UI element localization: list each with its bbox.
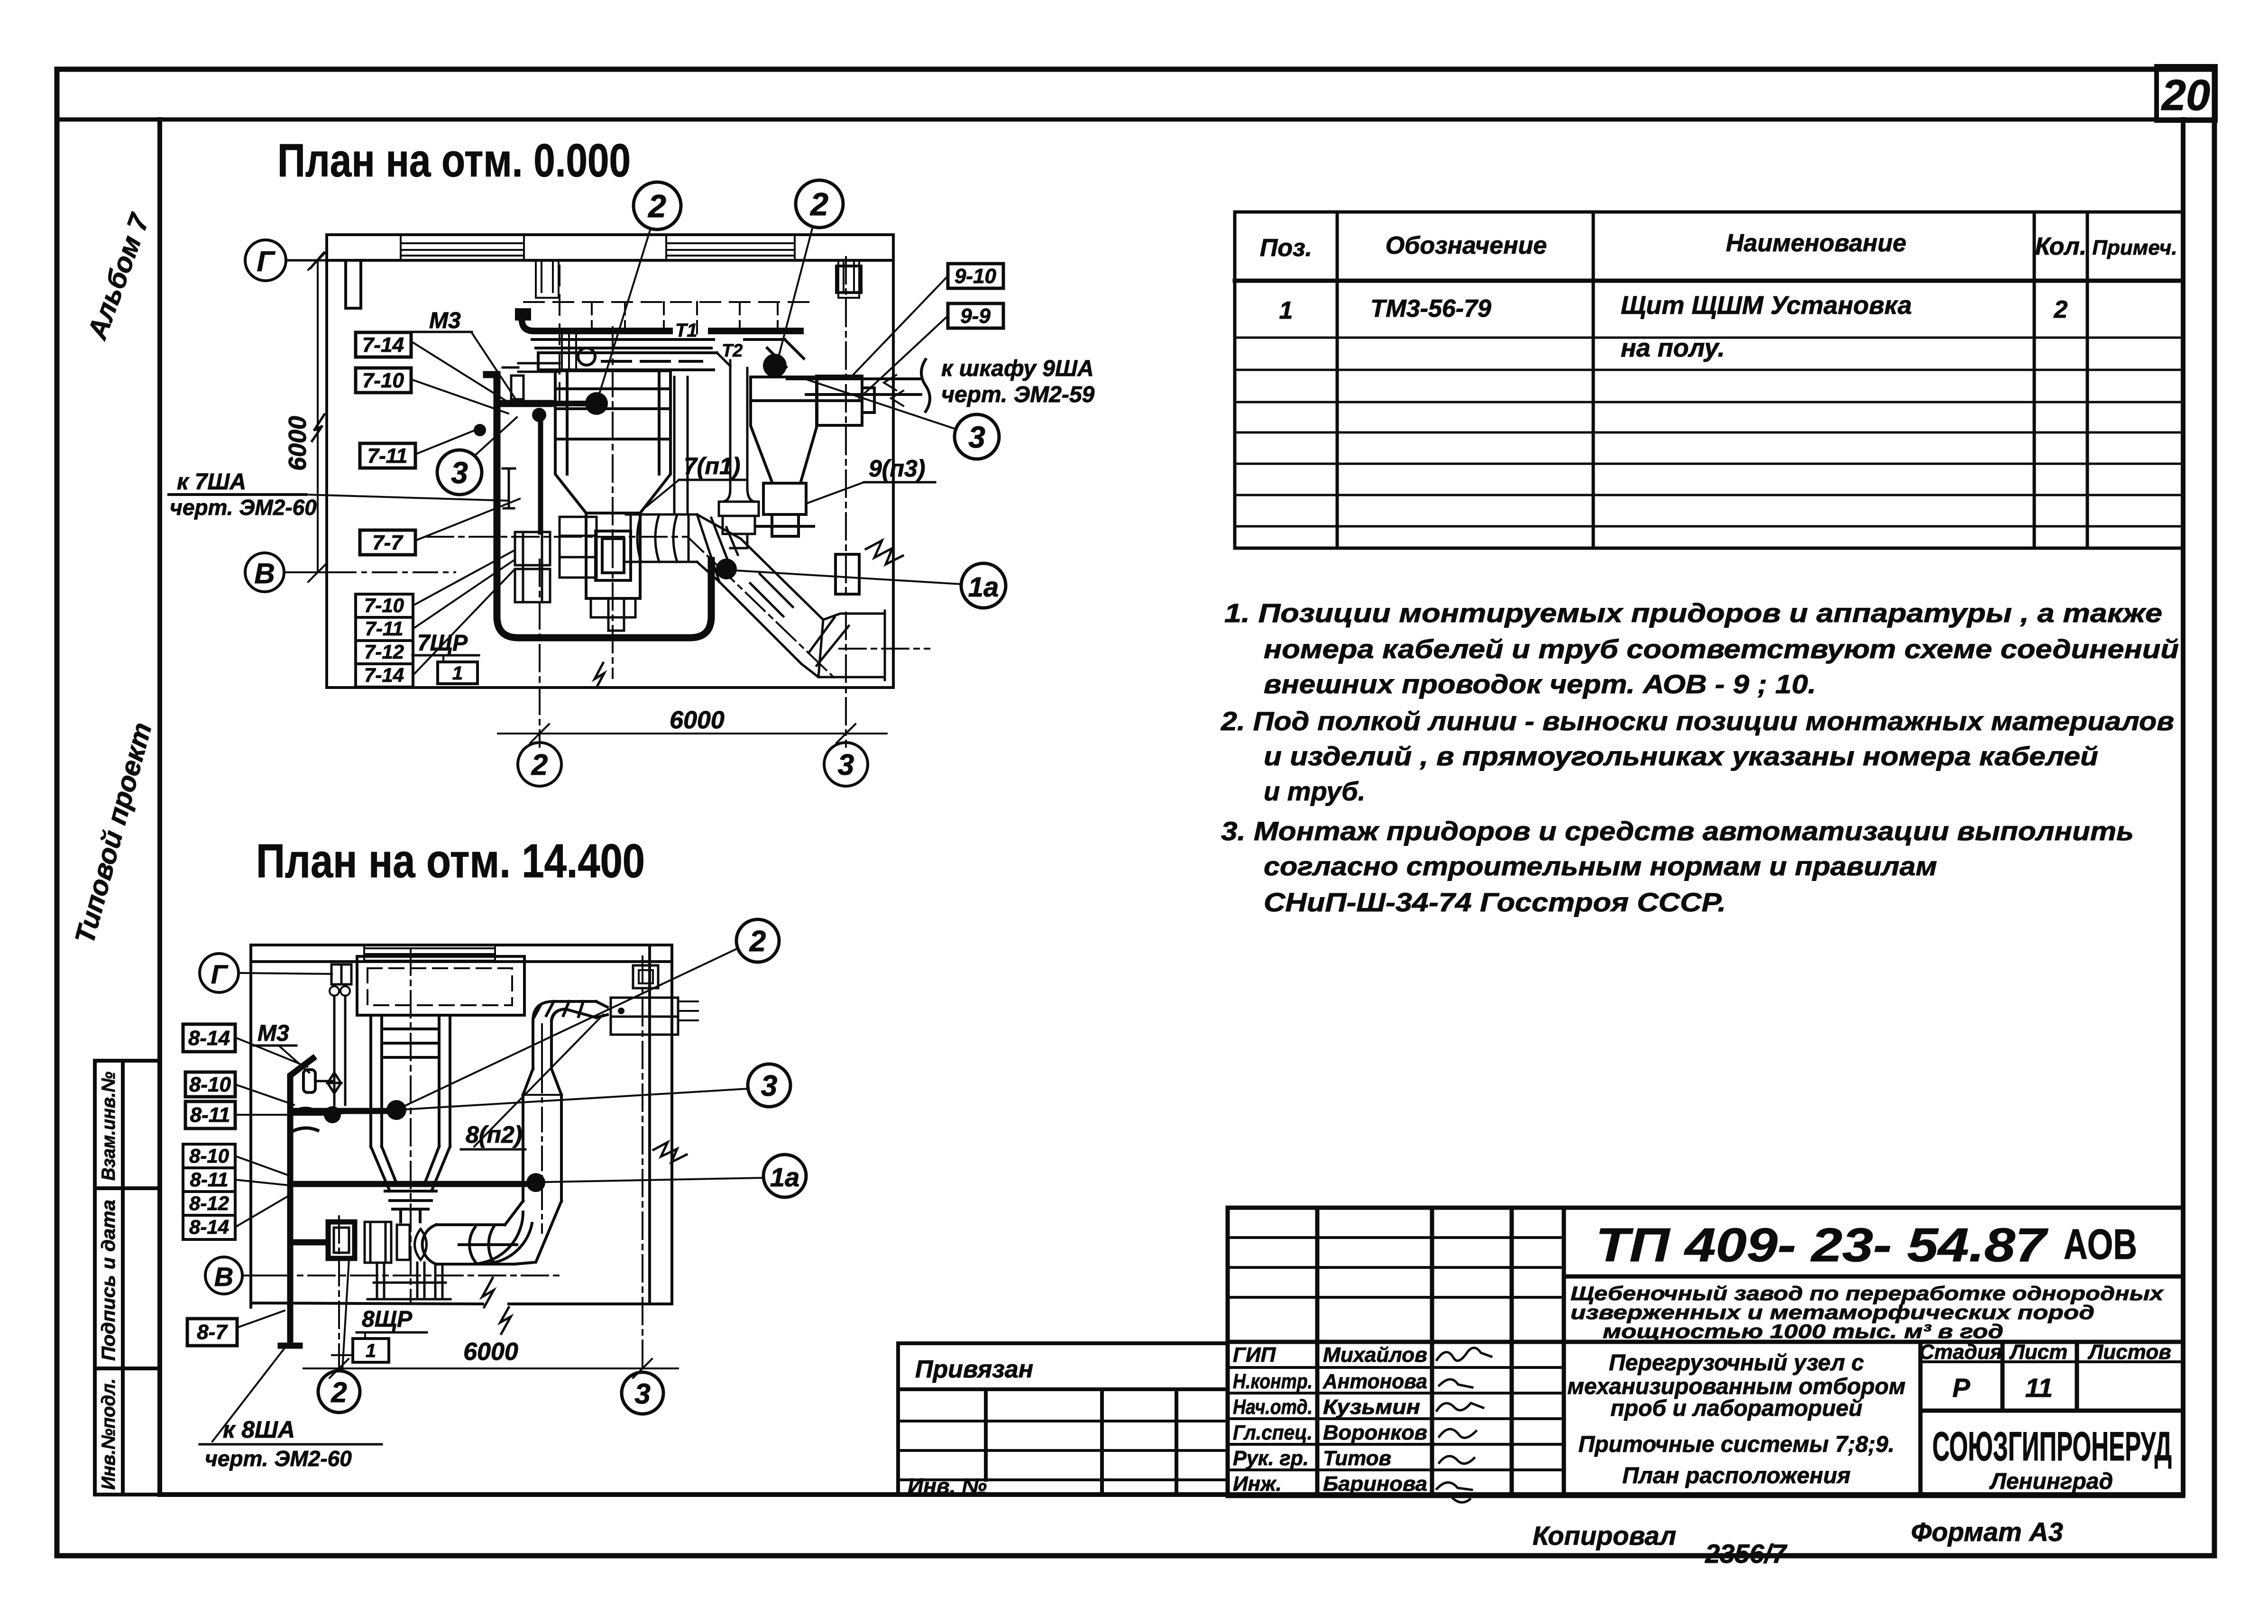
- plan1 duct elbow to right: [801, 611, 885, 680]
- plan2 break bottom: [482, 1278, 511, 1334]
- plan2 label box 8-11: [185, 1101, 235, 1129]
- svg-text:Обозначение: Обозначение: [1386, 232, 1547, 259]
- svg-text:6000: 6000: [670, 706, 725, 734]
- plan1 callout dot A: [585, 392, 608, 415]
- plan1 pilaster notch top-left: [346, 260, 361, 308]
- svg-text:7(п1): 7(п1): [684, 453, 740, 479]
- plan1 callout circle 2 first: [634, 182, 681, 229]
- svg-text:3: 3: [761, 1070, 777, 1102]
- svg-text:7ЩР: 7ЩР: [417, 631, 468, 656]
- plan1 window band left: [401, 236, 524, 260]
- svg-text:Стадия: Стадия: [1919, 1340, 2002, 1364]
- svg-text:8-11: 8-11: [190, 1168, 229, 1191]
- svg-text:8-11: 8-11: [190, 1103, 230, 1127]
- plan1 diagonal duct: [697, 514, 823, 664]
- plan1 left pipe with flanges: [503, 363, 560, 399]
- plan1 round duct hatched run: [626, 514, 697, 562]
- svg-text:мощностью 1000 тыс. м³ в го: мощностью 1000 тыс. м³ в год: [1603, 1320, 2003, 1342]
- svg-text:В: В: [254, 558, 275, 589]
- plan2 axis circle 2 bottom: [318, 1371, 360, 1413]
- plan1 callout circle 2 second: [796, 180, 843, 228]
- plan2 thick cable main: [281, 1058, 524, 1346]
- svg-text:АОВ: АОВ: [2064, 1221, 2137, 1268]
- plan1 label box 9-10: [948, 264, 1003, 288]
- plan2 bottom dimension 6000: [303, 956, 678, 1378]
- svg-text:Т1: Т1: [675, 320, 698, 341]
- plan1 building outer wall: [327, 235, 893, 688]
- svg-text:М3: М3: [429, 308, 461, 333]
- plan1 pilaster stubs: [536, 260, 559, 298]
- plan1 callout circle 3 left: [437, 450, 482, 495]
- svg-text:согласно строительным нормам: согласно строительным нормам и правилам: [1264, 851, 1937, 881]
- plan2 support legs: [367, 1263, 450, 1299]
- svg-text:1: 1: [452, 663, 463, 684]
- plan1 callout dot B: [763, 354, 787, 377]
- svg-text:и изделий , в прямоугольника: и изделий , в прямоугольниках указаны но…: [1264, 741, 2098, 771]
- plan1 main vessel: [555, 371, 670, 598]
- svg-text:М3: М3: [257, 1021, 289, 1046]
- plan1 small dot 7-11: [474, 424, 486, 436]
- svg-text:Гл.спец.: Гл.спец.: [1233, 1421, 1313, 1444]
- plan2 dot 3: [324, 1106, 341, 1123]
- plan1 label box 7-10: [356, 368, 411, 393]
- plan2 top-right small square: [633, 965, 658, 988]
- svg-text:СОЮЗГИПРОНЕРУД: СОЮЗГИПРОНЕРУД: [1932, 1424, 2172, 1469]
- plan2 leader from 2 bottom to box: [342, 1259, 349, 1370]
- svg-text:ТМ3-56-79: ТМ3-56-79: [1370, 295, 1491, 322]
- plan1 riser lines to vessel: [562, 332, 576, 371]
- plan2 flexible connector: [415, 1229, 427, 1260]
- svg-text:3: 3: [451, 456, 468, 490]
- plan2 mid rect: [397, 1225, 410, 1260]
- svg-text:Лист: Лист: [2009, 1340, 2068, 1364]
- plan1 left dimension line 6000: [308, 251, 327, 582]
- svg-text:ГИП: ГИП: [1233, 1343, 1276, 1367]
- svg-text:и труб.: и труб.: [1264, 776, 1365, 806]
- notes text: [1221, 598, 2179, 917]
- svg-text:к 8ША: к 8ША: [223, 1416, 295, 1443]
- plan2 dot 1a: [526, 1173, 545, 1192]
- svg-text:1: 1: [1279, 297, 1293, 324]
- svg-text:11: 11: [2025, 1373, 2053, 1403]
- svg-text:черт. ЭМ2-60: черт. ЭМ2-60: [205, 1446, 352, 1471]
- svg-text:к шкафу 9ША: к шкафу 9ША: [941, 356, 1094, 381]
- plan1 label box 7-14: [356, 332, 411, 357]
- svg-text:8-7: 8-7: [197, 1321, 228, 1344]
- spec table top right: [1235, 212, 2183, 548]
- plan1 callout circle 3 right: [955, 414, 999, 459]
- svg-text:Т2: Т2: [722, 341, 743, 361]
- svg-text:Г: Г: [257, 246, 276, 277]
- svg-text:Баринова: Баринова: [1323, 1472, 1427, 1496]
- plan1 axis circle 2 bottom: [518, 743, 561, 786]
- svg-text:2: 2: [531, 749, 548, 781]
- plan2 callout circle 2 top: [736, 919, 779, 962]
- plan2 M3 riser pipes: [328, 996, 345, 1112]
- svg-text:проб и лабораторией: проб и лабораторией: [1610, 1396, 1862, 1421]
- svg-text:7-11: 7-11: [365, 617, 404, 640]
- svg-text:Инж.: Инж.: [1233, 1472, 1282, 1496]
- svg-text:Привязан: Привязан: [915, 1356, 1033, 1383]
- plan1 dashed platform edge: [524, 266, 812, 413]
- svg-text:3: 3: [968, 420, 985, 454]
- svg-text:Михайлов: Михайлов: [1323, 1343, 1427, 1367]
- plan1 vessel centerline: [612, 327, 614, 678]
- privyazan table: [898, 1343, 1228, 1495]
- svg-text:Нач.отд.: Нач.отд.: [1233, 1395, 1313, 1419]
- svg-text:1а: 1а: [968, 572, 999, 603]
- svg-text:8-10: 8-10: [189, 1145, 229, 1167]
- plan2 label stack 8-10..8-14: [183, 1144, 235, 1239]
- svg-text:Щит ЩШМ Установка: Щит ЩШМ Установка: [1621, 291, 1912, 320]
- svg-text:Инв. №: Инв. №: [908, 1474, 987, 1498]
- plan2 elevator duct right: [523, 1001, 698, 1201]
- svg-text:Приточные системы 7;8;9.: Приточные системы 7;8;9.: [1579, 1432, 1895, 1457]
- svg-text:В: В: [214, 1262, 233, 1292]
- plan1 к шкафу 9ША leader lines: [787, 379, 921, 395]
- svg-text:1: 1: [366, 1340, 376, 1361]
- svg-text:8-14: 8-14: [188, 1027, 230, 1050]
- svg-text:Г: Г: [211, 959, 229, 989]
- plan1 wall break right: [866, 541, 903, 564]
- svg-text:План расположения: План расположения: [1622, 1463, 1850, 1488]
- plan1 bottom dimension 6000: [498, 560, 887, 747]
- plan1 thick cable to dot: [550, 401, 588, 406]
- plan1 vertical duct to 9(п3): [717, 353, 759, 548]
- plan2 label box 8-10: [185, 1072, 235, 1097]
- svg-text:Поз.: Поз.: [1260, 234, 1312, 262]
- svg-text:Кузьмин: Кузьмин: [1323, 1395, 1420, 1419]
- svg-text:Рук. гр.: Рук. гр.: [1233, 1447, 1309, 1470]
- plan2 axis circle 3 bottom: [622, 1372, 663, 1414]
- svg-text:Формат А3: Формат А3: [1911, 1517, 2063, 1547]
- plan2 dot 2: [386, 1100, 406, 1120]
- svg-text:внешних проводок черт. АОВ: внешних проводок черт. АОВ - 9 ; 10.: [1264, 669, 1816, 699]
- plan1 axis В: [245, 553, 284, 592]
- plan2 axis Г: [200, 954, 239, 992]
- plan2 centerline vertical: [410, 948, 412, 1302]
- plan1 window band right: [666, 236, 795, 260]
- plan1 pipes between vessels: [674, 377, 688, 514]
- svg-text:Воронков: Воронков: [1323, 1421, 1427, 1444]
- svg-text:7-10: 7-10: [362, 369, 404, 392]
- plan1 axis В dash-dot into plan: [332, 571, 455, 573]
- signatures squiggles: [1437, 1348, 1491, 1502]
- svg-text:7-12: 7-12: [364, 641, 404, 663]
- svg-text:черт. ЭМ2-59: черт. ЭМ2-59: [941, 382, 1095, 407]
- plan1 label box 7-7: [360, 530, 415, 555]
- svg-text:2356/7: 2356/7: [1705, 1539, 1788, 1569]
- svg-text:7-14: 7-14: [364, 664, 404, 686]
- plan2 callout circle 1a: [763, 1155, 806, 1197]
- svg-text:Листов: Листов: [2087, 1340, 2171, 1364]
- svg-text:Подпись и дата: Подпись и дата: [98, 1200, 119, 1361]
- svg-text:Титов: Титов: [1323, 1447, 1391, 1470]
- plan2 axis В: [205, 1257, 242, 1294]
- plan2 isolator box: [365, 1222, 391, 1263]
- plan2 elevator boot bend: [472, 1201, 561, 1264]
- svg-text:Антонова: Антонова: [1322, 1370, 1427, 1393]
- plan1 right equipment box: [817, 376, 874, 425]
- svg-text:8-10: 8-10: [189, 1073, 231, 1096]
- svg-text:2: 2: [749, 925, 766, 958]
- plan1 label stack 7-10..7-14: [356, 594, 413, 687]
- svg-text:Р: Р: [1952, 1373, 1970, 1403]
- svg-text:6000: 6000: [284, 416, 312, 471]
- sheet number box 20: [2157, 66, 2215, 120]
- svg-text:7-10: 7-10: [364, 594, 404, 616]
- svg-text:9-9: 9-9: [960, 304, 991, 328]
- plan1 small dot left: [532, 408, 546, 422]
- svg-text:2: 2: [809, 186, 828, 222]
- svg-text:СНиП-Ш-34-74 Госстроя СССР.: СНиП-Ш-34-74 Госстроя СССР.: [1264, 887, 1726, 917]
- svg-text:Примеч.: Примеч.: [2092, 236, 2177, 259]
- svg-text:План на отм. 14.400: План на отм. 14.400: [256, 835, 645, 888]
- inner drawing frame: [160, 119, 2183, 1495]
- plan2 building outline: [251, 945, 672, 1307]
- plan2 top machine room rect: [357, 956, 524, 1015]
- inner frame top line: [57, 118, 2214, 122]
- svg-text:Наименование: Наименование: [1726, 229, 1907, 257]
- plan2 fan cylinder: [422, 1225, 517, 1264]
- svg-text:8-12: 8-12: [189, 1192, 229, 1214]
- svg-text:к 7ША: к 7ША: [177, 469, 246, 495]
- svg-text:3: 3: [634, 1378, 650, 1410]
- plan1 duct T2: [532, 339, 804, 367]
- plan2 thick box: [328, 1222, 355, 1258]
- svg-text:Кол.: Кол.: [2035, 233, 2087, 260]
- svg-text:9-10: 9-10: [955, 265, 997, 288]
- plan2 cable hooks: [290, 1109, 318, 1133]
- svg-text:6000: 6000: [463, 1338, 518, 1366]
- svg-text:7-14: 7-14: [362, 333, 404, 357]
- svg-text:План на отм. 0.000: План на отм. 0.000: [277, 134, 631, 186]
- plan1 bottom break: [595, 663, 604, 688]
- plan2 M3 valve pill: [303, 1070, 315, 1092]
- svg-text:Ленинград: Ленинград: [1989, 1469, 2113, 1494]
- left margin stamp cells: [95, 1061, 160, 1495]
- svg-text:на полу.: на полу.: [1621, 334, 1725, 362]
- plan2 window band: [364, 945, 495, 962]
- plan2 label box 8-14: [183, 1024, 235, 1052]
- svg-text:1а: 1а: [770, 1162, 799, 1192]
- svg-text:2: 2: [647, 188, 666, 224]
- svg-text:2: 2: [331, 1376, 347, 1408]
- svg-text:7-11: 7-11: [367, 444, 408, 468]
- svg-text:20: 20: [2161, 71, 2210, 119]
- plan1 label box 9-9: [948, 303, 1003, 328]
- plan1 duct centerline dash-dot: [427, 537, 929, 678]
- svg-text:Перегрузочный узел с: Перегрузочный узел с: [1609, 1350, 1864, 1376]
- svg-text:1. Позиции монтируемых прид: 1. Позиции монтируемых придоров и аппара…: [1224, 598, 2162, 628]
- plan1 column bottom: [836, 554, 859, 594]
- plan2 callout circle 3: [748, 1064, 790, 1107]
- svg-text:2: 2: [2054, 296, 2068, 323]
- plan1 right column axis: [845, 257, 847, 597]
- svg-text:9(п3): 9(п3): [869, 455, 925, 482]
- svg-text:Взам.инв.№: Взам.инв.№: [98, 1072, 119, 1181]
- plan1 right vessel 9(п3): [751, 377, 817, 536]
- svg-text:8ЩР: 8ЩР: [362, 1307, 413, 1332]
- plan1 small pipe symbol: [503, 468, 515, 508]
- plan1 label box 7-11: [360, 443, 415, 468]
- svg-text:7-7: 7-7: [372, 531, 404, 554]
- svg-text:8-14: 8-14: [189, 1216, 229, 1238]
- svg-text:Инв.№подл.: Инв.№подл.: [98, 1378, 119, 1490]
- plan1 cabinet boxes lower-left: [515, 517, 597, 602]
- plan1 duct T1: [522, 319, 800, 331]
- plan2 break right: [653, 1142, 687, 1162]
- svg-text:ТП 409- 23- 54.87: ТП 409- 23- 54.87: [1596, 1219, 2048, 1272]
- plan2 label box 8-7: [187, 1319, 237, 1346]
- plan2 central tower shaft: [371, 1015, 450, 1222]
- plan1 column top: [836, 266, 861, 293]
- plan1 callout circle 1a: [961, 563, 1006, 608]
- title block: [1228, 1208, 2183, 1496]
- svg-text:черт. ЭМ2-60: черт. ЭМ2-60: [170, 495, 317, 520]
- plan2 top-left small square: [331, 964, 351, 984]
- svg-text:3. Монтаж придоров и средс: 3. Монтаж придоров и средств автоматизац…: [1221, 816, 2134, 846]
- plan1 axis circle 3 bottom: [824, 743, 868, 786]
- svg-text:3: 3: [838, 749, 854, 781]
- svg-text:Копировал: Копировал: [1533, 1521, 1676, 1551]
- svg-text:номера кабелей и труб соотв: номера кабелей и труб соответствуют схем…: [1264, 634, 2179, 664]
- svg-text:Н.контр.: Н.контр.: [1233, 1370, 1313, 1393]
- plan1 thick cable tray rounded outline: [487, 375, 711, 638]
- plan1 thick cable down from small dot: [538, 415, 543, 532]
- plan1 vessel chute bottom: [591, 598, 635, 631]
- svg-text:2. Под полкой линии - вынос: 2. Под полкой линии - выноски позиции мо…: [1221, 706, 2174, 736]
- plan1 axis Г: [245, 240, 286, 281]
- plan1 wide duct with centerline: [538, 348, 717, 370]
- plan2 top-right box: [611, 998, 678, 1035]
